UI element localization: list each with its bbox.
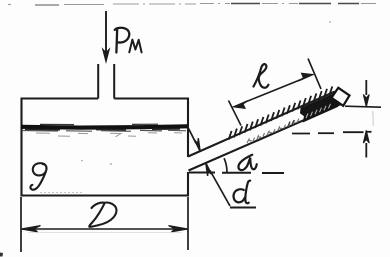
centerline dashes (zero level) xyxy=(292,132,372,134)
liquid surface xyxy=(21,126,188,127)
right wall upper xyxy=(187,98,189,158)
container outline xyxy=(21,98,190,197)
alpha label xyxy=(238,155,256,170)
bottom-left ink blot xyxy=(0,253,3,257)
scale ticks above tube xyxy=(229,86,333,139)
l script label xyxy=(254,64,269,88)
top border dash-dot line xyxy=(8,4,376,5)
label P_M xyxy=(115,28,129,53)
top border darker segments xyxy=(231,3,359,5)
tube end cap xyxy=(332,88,350,106)
bottom edge xyxy=(21,194,190,196)
faint pencil mark xyxy=(372,111,375,126)
D dimension extension lines xyxy=(21,197,188,252)
l dimension extension lines xyxy=(229,59,322,126)
left wall xyxy=(20,98,22,197)
horizontal reference dashes for alpha xyxy=(189,172,284,175)
liquid surface smudges xyxy=(22,130,186,131)
l dimension line xyxy=(244,80,301,103)
d label with underline xyxy=(230,207,256,209)
liquid column in tube (black band) xyxy=(301,92,340,121)
Pm arrow xyxy=(103,49,110,62)
faint scribbles inside tube xyxy=(247,119,299,143)
white specks in black band xyxy=(306,104,331,118)
D label xyxy=(89,203,116,227)
D dimension line with arrows xyxy=(22,228,187,230)
rho label xyxy=(30,163,46,190)
inclined tube upper line xyxy=(188,92,335,157)
top edge xyxy=(21,97,190,99)
inclined tube lower line xyxy=(189,102,346,171)
d dimension arrows across tube xyxy=(189,129,196,144)
inlet tube walls xyxy=(98,64,114,99)
right wall lower xyxy=(187,172,189,197)
right vertical dimension (h) xyxy=(365,80,367,158)
angle arc xyxy=(224,158,227,172)
faint scan specks and artifacts xyxy=(110,163,112,165)
extension line from tube end xyxy=(345,106,381,107)
